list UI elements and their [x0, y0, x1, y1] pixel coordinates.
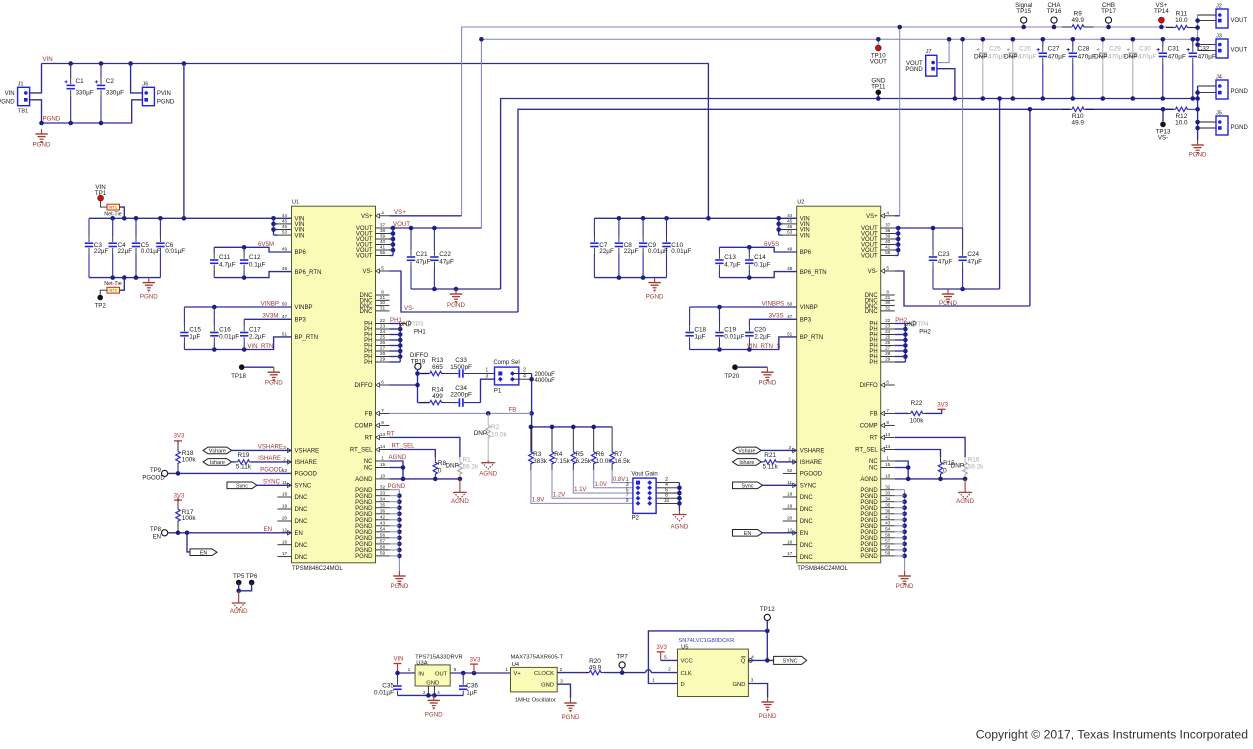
svg-text:470µF: 470µF: [1168, 53, 1186, 60]
wire U2 PGND pin join 59: [895, 555, 905, 557]
wire VS- line right: [1086, 108, 1174, 110]
svg-text:6: 6: [886, 380, 889, 385]
resistor R12: [1166, 107, 1197, 126]
svg-text:47: 47: [787, 314, 793, 319]
capacitor C32: [1187, 39, 1216, 98]
svg-text:C23: C23: [938, 251, 950, 258]
svg-text:0.01µF: 0.01µF: [165, 248, 185, 255]
wire clock wire b: [604, 672, 646, 674]
wire U2 VIN pins join: [778, 218, 780, 235]
svg-text:46: 46: [787, 224, 793, 229]
wire U1 VINBP rail: [184, 306, 291, 308]
svg-text:38: 38: [380, 228, 386, 233]
svg-text:J2: J2: [1216, 3, 1222, 9]
svg-text:EN: EN: [744, 531, 752, 537]
svg-text:TP18: TP18: [231, 373, 246, 380]
svg-text:CLK: CLK: [681, 671, 692, 677]
wire VIN rail U1: [89, 217, 292, 219]
resistor R13: [421, 357, 450, 375]
svg-text:DNC: DNC: [865, 309, 879, 315]
svg-text:1MHz Oscillator: 1MHz Oscillator: [515, 698, 556, 704]
svg-text:TP11: TP11: [871, 84, 886, 91]
svg-text:11: 11: [282, 480, 287, 485]
svg-text:TP4: TP4: [918, 322, 930, 328]
ground AGND: [230, 591, 248, 615]
svg-text:21: 21: [380, 295, 386, 300]
svg-text:Ishare: Ishare: [739, 460, 754, 466]
wire U3A out wire: [450, 672, 510, 674]
svg-text:C31: C31: [1168, 46, 1180, 53]
wire U1 PGND pin join 35: [390, 507, 400, 509]
test point TP17: [1101, 2, 1116, 23]
svg-text:22µF: 22µF: [599, 248, 614, 255]
svg-text:C20: C20: [754, 327, 766, 334]
wire U1 VIN pin join 235.1: [274, 234, 278, 236]
junction dots U1 NC: [401, 465, 406, 470]
wire U1 VOUT pin join 255.5: [390, 255, 394, 257]
test point TP14: [1154, 2, 1169, 23]
svg-text:1.2V: 1.2V: [553, 492, 565, 498]
svg-text:0.1µF: 0.1µF: [249, 261, 266, 268]
svg-text:VOUT: VOUT: [870, 59, 887, 66]
svg-text:39: 39: [380, 234, 386, 239]
capacitor C7: [590, 218, 614, 277]
capacitor C33: [450, 357, 500, 378]
wire VIN cap bottom rail U2: [594, 277, 666, 279]
svg-text:AGND: AGND: [479, 471, 497, 478]
svg-text:PGOOD: PGOOD: [295, 472, 318, 478]
junction dots VS+ tp: [1021, 25, 1163, 30]
resistor R3: [529, 427, 548, 470]
svg-text:PGND: PGND: [390, 583, 408, 590]
svg-text:VOUT: VOUT: [906, 61, 923, 67]
wire U1 BP6 top: [214, 247, 291, 252]
svg-text:DNC: DNC: [295, 543, 309, 549]
wire FB to divider: [531, 413, 533, 452]
svg-text:330µF: 330µF: [106, 90, 124, 97]
wire J7 VOUT: [937, 39, 949, 62]
svg-text:DNC: DNC: [295, 507, 309, 513]
junction dots U1 VINBP: [212, 305, 217, 310]
test point TP12: [760, 606, 775, 621]
svg-text:DNC: DNC: [800, 519, 814, 525]
ground PGND: [759, 697, 777, 720]
svg-text:4: 4: [381, 210, 384, 215]
wire J4 stub1: [1198, 85, 1216, 87]
svg-text:PGND: PGND: [33, 142, 51, 149]
svg-text:DNP: DNP: [474, 430, 488, 437]
ground PGND: [390, 571, 408, 590]
svg-text:14: 14: [885, 444, 891, 449]
svg-text:PGOOD: PGOOD: [142, 475, 165, 481]
svg-text:5.11k: 5.11k: [763, 463, 779, 470]
svg-text:PGND: PGND: [265, 380, 283, 387]
svg-text:44: 44: [282, 213, 288, 218]
capacitor C36: [459, 673, 478, 696]
svg-text:1µF: 1µF: [694, 334, 705, 341]
svg-text:4000uF: 4000uF: [535, 378, 556, 384]
svg-text:PGND: PGND: [140, 294, 158, 301]
svg-text:U4: U4: [512, 662, 520, 668]
wire J4 stub2: [1198, 92, 1216, 94]
svg-text:0.01µF: 0.01µF: [724, 334, 744, 341]
capacitor C5: [132, 218, 161, 277]
wire J4 J5 vertical: [1197, 86, 1199, 140]
capacitor C26: [1004, 39, 1036, 98]
svg-text:383k: 383k: [533, 458, 548, 465]
svg-text:BP6: BP6: [800, 250, 812, 256]
svg-text:R21: R21: [764, 452, 776, 459]
wire hop clock: [646, 670, 652, 673]
svg-text:3V3: 3V3: [174, 434, 185, 440]
junction dots TP10: [876, 37, 881, 42]
svg-text:57: 57: [885, 539, 891, 544]
ground PGND: [562, 698, 580, 721]
junction dots U2 PH pins: [903, 327, 908, 359]
wire U2 AGND rail: [895, 478, 965, 480]
svg-text:C19: C19: [724, 327, 736, 334]
wire TP1 to NT1: [101, 201, 107, 207]
svg-text:Copyright © 2017, Texas Instru: Copyright © 2017, Texas Instruments Inco…: [976, 728, 1248, 742]
svg-text:EN: EN: [800, 531, 808, 537]
svg-text:C24: C24: [967, 251, 979, 258]
svg-text:J5: J5: [1216, 110, 1222, 116]
wire U2 PH pins join: [904, 324, 906, 363]
svg-text:P2: P2: [632, 516, 640, 522]
wire J2 J3 vertical: [1197, 15, 1199, 51]
svg-text:2.2µF: 2.2µF: [754, 334, 771, 341]
svg-text:3V3: 3V3: [470, 657, 481, 663]
svg-text:DNC: DNC: [800, 507, 814, 513]
ground AGND: [451, 479, 469, 505]
wire U1 PH pin join 362: [390, 361, 401, 363]
wire U1 VOUT pins join: [392, 228, 394, 256]
svg-text:RT_SEL: RT_SEL: [855, 448, 878, 454]
junction dots VIN cap bottom U1: [110, 275, 138, 280]
svg-text:25: 25: [885, 335, 891, 340]
svg-text:VOUT: VOUT: [393, 221, 410, 228]
svg-text:DIFFO: DIFFO: [410, 353, 428, 359]
ground PGND: [758, 367, 776, 386]
svg-text:34: 34: [885, 496, 891, 501]
wire LDO pgnd rail: [398, 694, 464, 696]
svg-text:AGND: AGND: [956, 498, 974, 505]
wire U2 PH pin join 334.5: [895, 334, 906, 336]
wire U3A gnd stub a: [427, 686, 429, 695]
svg-text:32: 32: [885, 484, 891, 489]
wire U2 VS- wire: [895, 271, 1030, 306]
svg-text:28: 28: [885, 351, 891, 356]
svg-text:PH: PH: [364, 360, 372, 366]
capacitor C1: [65, 64, 94, 124]
svg-text:VSHARE: VSHARE: [295, 449, 320, 455]
capacitor C20: [745, 319, 771, 349]
svg-text:12: 12: [282, 527, 288, 532]
svg-text:PH1: PH1: [390, 317, 403, 324]
svg-text:39: 39: [885, 234, 891, 239]
svg-text:8: 8: [381, 290, 384, 295]
junction dots U2 VIN pins: [776, 222, 781, 232]
svg-text:COMP: COMP: [355, 424, 373, 430]
wire VS+ sense line right: [1086, 26, 1174, 28]
wire U2 VINRTN rail: [690, 337, 797, 350]
wire U1 VOUT pin join 250: [390, 249, 394, 251]
svg-text:RT_SEL: RT_SEL: [350, 448, 373, 454]
svg-text:665: 665: [432, 364, 443, 371]
capacitor C18: [685, 307, 706, 350]
svg-text:PGOOD: PGOOD: [800, 472, 823, 478]
svg-text:C36: C36: [466, 682, 478, 689]
svg-text:10: 10: [664, 498, 670, 504]
wire U2 PGND pin join 33: [895, 495, 905, 497]
junction dots top rails: [479, 25, 1032, 112]
section input: [0, 56, 708, 218]
svg-text:15: 15: [380, 462, 386, 467]
power flag 3V3: [937, 403, 948, 410]
ground PGND: [896, 571, 914, 590]
svg-text:27: 27: [380, 346, 386, 351]
svg-text:43: 43: [380, 520, 386, 525]
junction dots cap bank top: [981, 37, 1196, 42]
wire TP7 stub: [621, 668, 623, 673]
svg-text:4: 4: [523, 373, 526, 379]
svg-text:Sync: Sync: [236, 483, 248, 489]
svg-text:Comp Sel: Comp Sel: [493, 360, 519, 366]
wire U1 PGND pin join 42: [390, 519, 400, 521]
svg-text:TP9: TP9: [150, 468, 162, 474]
svg-text:VSHARE: VSHARE: [800, 449, 825, 455]
svg-text:C13: C13: [724, 254, 736, 261]
svg-text:27: 27: [885, 346, 891, 351]
capacitor C28: [1067, 39, 1096, 98]
svg-text:470µF: 470µF: [1198, 53, 1216, 60]
junction dots DIFFO node: [415, 371, 420, 387]
wire U2 PGND pin join 36: [895, 513, 905, 515]
svg-text:21: 21: [885, 295, 891, 300]
svg-text:470µF: 470µF: [1138, 53, 1156, 60]
svg-text:25: 25: [380, 335, 386, 340]
test point TP19: [415, 363, 421, 369]
wire GND line: [501, 99, 1198, 290]
svg-text:BP_RTN: BP_RTN: [800, 335, 824, 341]
svg-text:TP20: TP20: [724, 373, 739, 380]
capacitor C27: [1037, 39, 1066, 98]
power flag 3V3: [174, 434, 185, 441]
svg-text:P1: P1: [494, 388, 502, 394]
wire TP5 TP6 join: [239, 583, 252, 591]
ground PGND: [1189, 140, 1207, 159]
svg-text:AGND: AGND: [860, 477, 878, 483]
wire U1 SYNC: [256, 484, 292, 486]
resistor R21: [763, 452, 779, 470]
junction dots clock wire: [620, 670, 625, 675]
wire U1 PGND pin join 43: [390, 525, 400, 527]
capacitor C2: [95, 64, 124, 124]
junction dots U1 BP6: [242, 245, 247, 280]
resistor R11: [1166, 10, 1197, 29]
junction dots U2 VOUT pins: [896, 231, 901, 252]
svg-text:DIFFO: DIFFO: [355, 383, 373, 389]
junction dots VIN cap bottom U2: [617, 275, 646, 280]
wire R14 row left: [418, 402, 430, 404]
svg-text:EN: EN: [263, 526, 272, 533]
svg-text:3V3: 3V3: [174, 493, 185, 499]
svg-text:0.01µF: 0.01µF: [648, 248, 668, 255]
wire U2 BP6 top: [719, 247, 796, 252]
wire PGND input rail: [42, 100, 143, 123]
svg-text:FB: FB: [870, 412, 878, 418]
wire U1 PGND pin join 56: [390, 537, 400, 539]
svg-text:TP7: TP7: [616, 653, 628, 660]
svg-text:R19: R19: [238, 452, 250, 459]
svg-text:0.8V: 0.8V: [613, 477, 625, 483]
svg-text:31: 31: [380, 306, 386, 311]
wire U2 PGND pin join 43: [895, 525, 905, 527]
wire U2 PGND pin join 58: [895, 549, 905, 551]
svg-text:PGND: PGND: [43, 116, 61, 123]
wire U1 PH pin join 356.5: [390, 356, 401, 358]
test point TP6: [246, 573, 258, 585]
wire U2 RT: [895, 437, 965, 457]
svg-text:47µF: 47µF: [967, 259, 982, 266]
wire TP12 stub: [766, 620, 768, 631]
svg-text:58: 58: [885, 545, 891, 550]
svg-text:PH2: PH2: [919, 329, 931, 335]
svg-text:34: 34: [380, 496, 386, 501]
svg-text:36: 36: [885, 508, 891, 513]
capacitor C29: [1094, 39, 1126, 98]
svg-text:52: 52: [787, 468, 793, 473]
svg-text:57: 57: [380, 539, 386, 544]
svg-text:22µF: 22µF: [94, 248, 109, 255]
svg-text:AGND: AGND: [670, 524, 688, 531]
IC U1 TPSM846C24MOL: [278, 200, 390, 572]
wire P2 stub 4: [656, 487, 679, 489]
wire U4 gnd: [557, 684, 570, 698]
wire J3 stub1: [1198, 44, 1216, 46]
wire U1 PGND pin join 36: [390, 513, 400, 515]
junction dots VIN rail U2: [617, 216, 781, 221]
svg-text:48: 48: [282, 266, 288, 271]
svg-text:PGND: PGND: [562, 714, 580, 721]
junction dots J7: [947, 37, 957, 101]
svg-text:PGOOD: PGOOD: [260, 467, 283, 474]
wire U5 gnd: [748, 684, 767, 698]
wire U2 PGND pin join 32: [895, 489, 905, 491]
svg-text:2: 2: [788, 457, 791, 462]
svg-text:VIN_RTN_S: VIN_RTN_S: [747, 343, 781, 350]
svg-text:GND: GND: [426, 680, 439, 686]
svg-text:Q: Q: [741, 659, 746, 665]
svg-text:VSHARE: VSHARE: [258, 444, 283, 451]
wire U2 VOUT pin join 233.5: [895, 233, 899, 235]
svg-text:ISHARE: ISHARE: [258, 455, 281, 462]
svg-text:50: 50: [787, 302, 793, 307]
svg-text:2: 2: [668, 666, 671, 672]
svg-text:1: 1: [505, 667, 508, 673]
svg-text:26: 26: [885, 340, 891, 345]
capacitor C30: [1124, 39, 1156, 98]
svg-text:SYNC: SYNC: [783, 659, 798, 665]
svg-text:PGND: PGND: [905, 67, 923, 73]
svg-text:49: 49: [787, 247, 793, 252]
svg-text:DNP: DNP: [1094, 53, 1108, 60]
svg-text:EN: EN: [200, 550, 208, 556]
net flag Sync U2: [733, 482, 763, 489]
svg-text:IN: IN: [418, 671, 424, 677]
junction dots VIN input rail2: [68, 61, 103, 66]
svg-text:C17: C17: [249, 327, 261, 334]
svg-text:TP15: TP15: [1016, 8, 1031, 15]
svg-text:DNC: DNC: [295, 555, 309, 561]
svg-text:44: 44: [787, 213, 793, 218]
resistor R9: [1062, 10, 1094, 29]
svg-text:VOUT: VOUT: [356, 254, 373, 260]
svg-text:59: 59: [885, 551, 891, 556]
capacitor C31: [1157, 39, 1186, 98]
wire U1 PH pins join: [399, 324, 401, 363]
wire divider top rail: [531, 426, 612, 428]
svg-text:TP5: TP5: [233, 573, 245, 580]
power flag VIN: [393, 657, 403, 664]
svg-text:55: 55: [380, 250, 386, 255]
svg-text:3V3S: 3V3S: [769, 313, 784, 320]
wire U1 PH pin join 329: [390, 328, 401, 330]
svg-text:Sync: Sync: [742, 483, 754, 489]
svg-text:1.8V: 1.8V: [532, 498, 544, 504]
svg-text:48: 48: [787, 266, 793, 271]
svg-text:C26: C26: [1019, 46, 1031, 53]
svg-text:17: 17: [282, 551, 288, 556]
svg-text:45: 45: [787, 219, 793, 224]
test point TP10: [870, 45, 887, 66]
wire VOUT power line: [481, 39, 1197, 228]
wire P2 stub 6: [656, 492, 679, 494]
svg-text:3: 3: [751, 678, 754, 684]
wire VIN rail U2: [594, 217, 796, 219]
svg-text:C29: C29: [1109, 46, 1121, 53]
junction dots VIN rail U1: [110, 216, 275, 221]
svg-text:49.9: 49.9: [589, 664, 602, 671]
junction dots P1 vertical: [529, 377, 534, 416]
wire U2 PH pin join 340: [895, 339, 906, 341]
wire TP16 stub: [1053, 23, 1055, 27]
junction dots U3A out: [461, 671, 476, 676]
svg-text:SYNC: SYNC: [800, 484, 817, 490]
resistor R4: [550, 427, 571, 470]
junction dots U2 VINRTN: [717, 347, 752, 352]
junction dots VIN rail: [128, 61, 186, 66]
wire TP17 stub: [1108, 23, 1110, 27]
svg-text:AGND: AGND: [355, 477, 373, 483]
svg-text:5: 5: [886, 266, 889, 271]
junction dots U1 VOUT caps bottom: [432, 287, 458, 292]
svg-text:VS+: VS+: [361, 214, 373, 220]
test point TP11: [871, 77, 886, 95]
test point TP8: [162, 530, 168, 536]
svg-text:C27: C27: [1048, 46, 1060, 53]
svg-text:PGND: PGND: [157, 99, 175, 105]
svg-text:PGND: PGND: [896, 583, 914, 590]
svg-text:ISHARE: ISHARE: [295, 460, 317, 466]
wire U2 VOUT pin join 255.5: [895, 255, 899, 257]
svg-text:10.0k: 10.0k: [491, 431, 507, 438]
junction dots U5 loop: [765, 629, 770, 663]
junction dots J2J3: [1195, 18, 1200, 47]
svg-text:C25: C25: [989, 46, 1001, 53]
resistor R14: [421, 386, 450, 405]
svg-text:TP2: TP2: [95, 303, 107, 310]
